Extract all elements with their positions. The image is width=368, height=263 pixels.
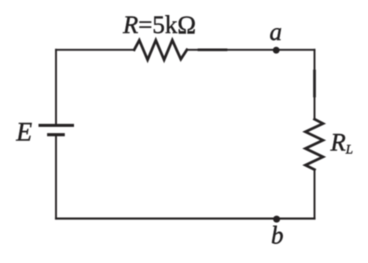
svg-text:RL: RL (330, 129, 354, 156)
wire left lower segment (55, 136, 57, 218)
wire right upper thick patch (313, 71, 316, 96)
wire top-left segment (56, 49, 134, 51)
svg-text:b: b (271, 223, 284, 250)
wire top-right segment (187, 49, 315, 51)
svg-text:R=5kΩ: R=5kΩ (122, 12, 196, 39)
resistor R (R=5kΩ) zigzag (134, 40, 187, 60)
battery E short plate (49, 133, 64, 136)
wire right lower segment (314, 170, 316, 219)
resistor RL zigzag (305, 119, 323, 169)
svg-text:E: E (15, 117, 32, 146)
wire right upper segment (314, 50, 316, 119)
svg-text:a: a (270, 19, 283, 46)
node b junction dot (273, 216, 280, 223)
wire top-right thick patch (199, 48, 226, 51)
node a junction dot (273, 47, 280, 54)
wire left upper segment (55, 50, 57, 124)
battery E long plate (40, 124, 73, 127)
wire bottom (56, 218, 315, 220)
